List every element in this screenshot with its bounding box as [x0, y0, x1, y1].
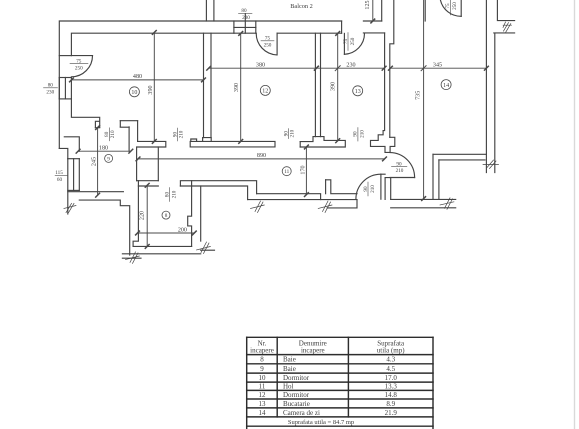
svg-text:245: 245 — [91, 157, 97, 166]
svg-text:390: 390 — [148, 85, 154, 94]
room 8 right wall outer — [188, 181, 192, 247]
bath lower band walls — [257, 194, 321, 200]
wall between room9/hall left part — [137, 121, 139, 142]
door 75/250 top right: leaf — [460, 0, 462, 16]
svg-text:250: 250 — [264, 43, 272, 49]
room circle 12 — [260, 85, 270, 95]
svg-text:Hol: Hol — [283, 383, 294, 391]
svg-text:390: 390 — [234, 83, 240, 92]
room circle 10 — [129, 87, 139, 97]
svg-text:250: 250 — [350, 37, 356, 45]
break mark below room8 right wall — [197, 242, 211, 254]
hall bottom wall left of door80 — [137, 180, 159, 182]
room 8 top wall inner — [138, 185, 158, 187]
svg-text:170: 170 — [301, 165, 307, 174]
svg-text:13: 13 — [259, 400, 267, 408]
svg-text:125: 125 — [365, 0, 371, 9]
label 115/60 left window2 — [55, 170, 68, 183]
svg-text:Suprafata utila = 84.7 mp: Suprafata utila = 84.7 mp — [288, 419, 354, 426]
bottom outer wall under room 8 — [122, 253, 200, 255]
DIMS_START — [70, 0, 489, 248]
table outer border — [247, 336, 433, 338]
room9 top-left step — [64, 137, 79, 151]
room 10 door stub cap — [95, 121, 99, 127]
room circle 8 — [162, 211, 170, 219]
room 9 right wall upper band — [120, 120, 137, 122]
svg-text:4.3: 4.3 — [386, 356, 395, 364]
break mark top right — [503, 22, 512, 32]
top right corner walls — [497, 0, 514, 21]
wall stub below upper door — [385, 178, 391, 200]
wall kitchen/room14 west face — [371, 33, 395, 152]
svg-text:210: 210 — [171, 190, 177, 198]
kitchen balcony door leaf — [343, 33, 345, 54]
svg-text:10: 10 — [259, 374, 267, 382]
break mark bottom band room14 — [440, 198, 454, 210]
door 90/210 upper arc — [390, 153, 415, 178]
svg-text:21.9: 21.9 — [385, 409, 398, 417]
door 80/210 jamb — [157, 147, 159, 181]
left outer wall step at y=148 — [59, 148, 68, 158]
break marks lower band left pair — [251, 201, 265, 213]
room 8 right wall inner — [200, 186, 202, 241]
svg-text:11: 11 — [259, 383, 266, 391]
door 75/250 top right arc — [440, 0, 461, 16]
door 75/250 top-left: caps — [59, 55, 71, 57]
left wall below window down to break — [67, 159, 69, 214]
svg-text:390: 390 — [331, 82, 337, 91]
svg-text:17.0: 17.0 — [385, 374, 398, 382]
svg-text:60: 60 — [57, 177, 63, 183]
dim 220 room 8 — [146, 185, 148, 246]
balcony door left jamb — [341, 21, 343, 33]
room 14 left wall upper — [424, 0, 426, 21]
dim 480 room 10 — [72, 79, 204, 81]
door 75/250 top-left arc — [71, 56, 92, 77]
svg-text:14: 14 — [443, 83, 449, 89]
window 80/230 top wall of room 12 : box verticals — [233, 21, 235, 33]
break mark bottom-left outer — [126, 252, 140, 264]
label 75/250 top-right door rotated — [445, 0, 458, 15]
svg-text:12: 12 — [259, 391, 267, 399]
svg-text:9: 9 — [107, 156, 110, 162]
svg-text:10: 10 — [131, 90, 137, 96]
label 75/250 room12 balcony door — [261, 36, 274, 49]
dim 245 room 9 — [97, 128, 99, 196]
svg-text:4.5: 4.5 — [386, 365, 395, 373]
TABLE_START — [247, 337, 433, 429]
door 90/210 lower arc — [356, 174, 381, 199]
label 75/250 door top-left — [70, 59, 88, 72]
dim 890 hall — [138, 158, 385, 160]
svg-text:250: 250 — [75, 66, 83, 72]
label 90/210 room12 opening tiny — [284, 129, 296, 139]
svg-text:180: 180 — [99, 146, 108, 152]
room 8 bottom inner — [133, 245, 192, 247]
label 90/210 lower door rotated — [363, 182, 376, 196]
svg-text:14: 14 — [259, 409, 267, 417]
svg-text:Baie: Baie — [283, 365, 296, 373]
balcony wall right of kitchen — [390, 0, 394, 137]
svg-text:210: 210 — [370, 185, 376, 193]
stub wall in lower hall — [326, 180, 357, 194]
svg-text:200: 200 — [178, 227, 187, 233]
label 90/210 hall-room10 opening rotated — [172, 128, 184, 141]
dim 200 room 8 — [138, 232, 195, 234]
door 75/250 top-left leaf — [71, 55, 92, 57]
top wall kitchen segment outer — [363, 20, 381, 22]
svg-text:Camera de zi: Camera de zi — [283, 409, 320, 417]
kitchen balcony door arc — [344, 33, 364, 54]
divider wall rooms 12/13 — [314, 33, 316, 136]
dim 390 room 10 — [153, 32, 155, 141]
wall ledge joining room 9 top — [120, 126, 129, 128]
svg-text:Bucatarie: Bucatarie — [283, 400, 310, 408]
door 90/210 upper (hall to room 14): leaf — [390, 177, 415, 179]
svg-text:345: 345 — [433, 62, 442, 68]
svg-text:210: 210 — [178, 130, 184, 138]
svg-text:480: 480 — [133, 74, 142, 80]
dim 125 top right — [372, 0, 374, 21]
svg-text:9: 9 — [260, 365, 264, 373]
svg-text:8.9: 8.9 — [386, 400, 395, 408]
room 8 left wall — [133, 181, 138, 247]
svg-text:220: 220 — [140, 211, 146, 220]
dim 390 room 12 — [240, 33, 242, 141]
dim 390 room 13 — [337, 33, 339, 140]
left wall inner below window — [71, 99, 99, 127]
lower band under doors segment — [327, 200, 357, 208]
exterior top wall outer face — [59, 21, 341, 148]
room 14 bottom-left corner wall — [432, 154, 434, 199]
svg-text:14.8: 14.8 — [385, 391, 398, 399]
dim 380/230/345 shared line — [209, 67, 384, 69]
svg-text:Baie: Baie — [283, 356, 296, 364]
svg-text:210: 210 — [290, 129, 296, 137]
label 80/210 room8 door rotated — [164, 188, 177, 202]
lower area small ledge — [201, 249, 215, 251]
svg-text:735: 735 — [416, 91, 422, 100]
room circle 9 — [105, 154, 113, 162]
label 80/210 room10 door rotated — [104, 128, 116, 141]
room circle 11 — [282, 167, 291, 176]
room 9 bottom wall — [68, 191, 124, 193]
label 90/210 kitchen door rotated — [353, 128, 366, 142]
svg-text:210: 210 — [110, 130, 116, 138]
svg-text:Dormitor: Dormitor — [283, 374, 310, 382]
label 90/210 upper door — [392, 161, 407, 174]
hall top wall mid segment (rooms 10/12) — [190, 141, 275, 147]
dim 170 hall — [305, 147, 307, 195]
room circle 13 — [353, 86, 363, 96]
hall bottom wall right of door80 — [180, 181, 256, 194]
svg-text:210: 210 — [360, 130, 366, 138]
exterior top wall inner face — [71, 33, 256, 55]
dim 180 room 9 — [78, 150, 131, 152]
svg-text:incapere: incapere — [301, 347, 325, 355]
svg-text:13: 13 — [355, 89, 361, 95]
break mark right wall bottom — [483, 160, 499, 169]
svg-text:11: 11 — [284, 169, 289, 175]
hall top wall left segment — [137, 141, 166, 180]
svg-text:12: 12 — [262, 89, 268, 95]
svg-text:890: 890 — [257, 153, 266, 159]
door 75/250 room12 balcony: leaf — [276, 33, 278, 55]
page edge line — [574, 0, 576, 429]
divider rooms 10/12 cap — [191, 139, 197, 141]
svg-text:incapere: incapere — [250, 347, 274, 355]
svg-text:230: 230 — [346, 63, 355, 69]
balcony divider wall above top wall — [205, 0, 207, 21]
svg-text:13.3: 13.3 — [385, 383, 398, 391]
svg-text:380: 380 — [256, 63, 265, 69]
room 14 right wall — [485, 0, 487, 173]
door 90/210 lower cap — [381, 173, 385, 175]
label 80/230 left window — [44, 83, 58, 96]
svg-text:8: 8 — [165, 213, 168, 219]
door 75/250 room12 balcony arc — [256, 33, 277, 55]
svg-text:Dormitor: Dormitor — [283, 391, 310, 399]
table column lines — [276, 337, 278, 417]
svg-text:230: 230 — [242, 15, 250, 21]
table row lines — [247, 354, 433, 356]
svg-text:210: 210 — [396, 168, 404, 174]
label 80/230 top window — [239, 8, 253, 21]
label 75/250 balcony door rotated — [343, 33, 356, 51]
window 115/60 left wall — [68, 158, 80, 160]
top wall kitchen segment inner — [363, 32, 384, 34]
window middle horizontal — [234, 26, 256, 28]
hall top wall right segment to kitchen — [299, 142, 301, 147]
svg-text:230: 230 — [46, 90, 54, 96]
divider wall rooms 10/12 — [203, 33, 205, 137]
room circle 14 — [441, 80, 451, 90]
svg-text:Balcon 2: Balcon 2 — [290, 3, 313, 10]
bottom band right of doors — [391, 198, 456, 200]
door 90/210 lower: leaf — [380, 174, 382, 199]
balcony right jamb verticals above wall — [381, 0, 383, 21]
window center vertical + leader up — [244, 14, 246, 33]
svg-text:utila (mp): utila (mp) — [377, 347, 405, 355]
window 80/230 left wall — [58, 78, 60, 99]
break mark bottom-left wall — [64, 203, 76, 212]
svg-text:8: 8 — [260, 356, 264, 364]
svg-text:250: 250 — [452, 2, 458, 10]
dim 735 room 14 — [423, 0, 425, 199]
